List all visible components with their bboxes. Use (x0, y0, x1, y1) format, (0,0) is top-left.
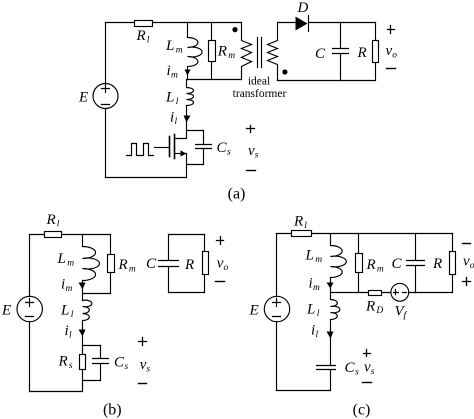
inductor Ll (a) (187, 80, 194, 131)
current arrow im (c) (327, 283, 334, 289)
svg-text:o: o (470, 261, 474, 271)
wire: (b) snubber top rail (83, 345, 101, 347)
svg-text:R: R (118, 257, 128, 273)
source E (a) (93, 84, 118, 109)
svg-text:D: D (375, 306, 383, 316)
resistor R (a) (373, 23, 379, 81)
label vo plus (c) (463, 278, 471, 286)
wire: (a) secondary to diode (278, 22, 296, 24)
wire: (b) E top lead (29, 235, 31, 297)
label vo minus (c) (463, 243, 471, 245)
svg-text:R: R (432, 256, 442, 272)
wire: (b) magnetizing node rail (83, 293, 111, 295)
label vs plus (a) (247, 126, 255, 133)
transformer secondary winding (a) (268, 23, 278, 81)
wire: (a) source lead (186, 154, 188, 178)
svg-text:m: m (377, 264, 384, 274)
capacitor C (b) (159, 235, 179, 293)
svg-text:l: l (57, 220, 60, 230)
resistor Rm (a) (209, 23, 216, 80)
label ideal transformer (233, 76, 287, 101)
svg-text:s: s (371, 367, 375, 377)
svg-text:o: o (392, 51, 397, 61)
inductor Lm (a) (188, 23, 203, 80)
svg-text:E: E (249, 303, 259, 319)
svg-text:C: C (114, 354, 125, 370)
label Vf (c) (395, 304, 408, 322)
svg-text:s: s (355, 368, 359, 378)
wire: (b) snubber bottom rail (83, 380, 101, 382)
resistor R (c) (450, 234, 456, 293)
svg-text:m: m (67, 259, 74, 269)
capacitor C (c) (407, 234, 425, 293)
capacitor Cs (c) (317, 366, 336, 391)
svg-text:l: l (69, 331, 72, 341)
polarity dot primary (a) (232, 27, 237, 32)
wire: (a) E bottom lead (105, 109, 107, 178)
wire: (a) drain node to Cs (187, 130, 204, 132)
resistor Rm (c) (356, 234, 363, 293)
resistor RD (c) (369, 291, 382, 296)
resistor Rl (c) (292, 231, 312, 237)
wire: (a) diode to output rail (309, 22, 376, 24)
label vo minus (b) (216, 281, 225, 283)
svg-text:L: L (165, 38, 174, 54)
source Vf (c) (391, 283, 409, 301)
svg-text:(c): (c) (353, 402, 371, 419)
label vo plus (b) (217, 237, 224, 245)
label il (c) (311, 323, 319, 341)
label Rl (c) (293, 214, 307, 232)
inductor Lm (b) (83, 235, 100, 294)
label vs (b) (140, 357, 151, 375)
label Rm (a) (217, 44, 235, 62)
svg-text:C: C (146, 256, 157, 272)
wire: (c) top rail (277, 233, 453, 235)
label vo minus (a) (387, 68, 396, 70)
svg-text:R: R (58, 354, 68, 370)
svg-text:L: L (165, 90, 174, 106)
svg-text:E: E (1, 303, 11, 319)
label vs plus (c) (364, 350, 371, 357)
svg-text:s: s (125, 362, 129, 372)
svg-text:(b): (b) (103, 402, 122, 419)
svg-text:m: m (66, 284, 73, 294)
label Cs (a) (217, 140, 232, 158)
resistor Rs (b) (80, 346, 86, 392)
svg-text:R: R (46, 212, 56, 228)
svg-text:C: C (392, 256, 403, 272)
current arrow im (a) (185, 70, 191, 76)
MOSFET switch (a) (155, 131, 187, 159)
svg-text:D: D (297, 0, 309, 16)
current arrow il (a) (184, 116, 191, 123)
svg-text:l: l (176, 97, 179, 107)
label Ll (a) (165, 90, 179, 108)
polarity dot secondary (a) (282, 69, 287, 74)
svg-text:m: m (176, 46, 183, 56)
resistor Rl (a) (135, 21, 153, 27)
svg-text:l: l (317, 309, 320, 319)
svg-text:s: s (227, 148, 231, 158)
inductor Lm (c) (331, 234, 347, 293)
svg-text:L: L (306, 301, 315, 317)
svg-text:R: R (184, 257, 194, 273)
wire: (a) top rail (106, 22, 242, 24)
svg-text:l: l (175, 117, 178, 127)
resistor Rl (b) (45, 232, 62, 238)
label Ll (c) (306, 301, 320, 319)
svg-text:(a): (a) (228, 186, 246, 203)
wire: (b) E bottom lead (29, 322, 31, 392)
svg-text:C: C (315, 46, 326, 62)
svg-text:m: m (315, 255, 322, 265)
transformer primary winding (a) (242, 23, 252, 80)
label vo (a) (386, 43, 398, 61)
svg-text:l: l (147, 36, 150, 46)
label vs minus (c) (363, 382, 372, 384)
label Rm (c) (366, 257, 384, 275)
wire: (a) output bottom rail (278, 80, 376, 82)
svg-text:ideal: ideal (248, 76, 270, 88)
wire: (a) E top lead (105, 23, 107, 84)
svg-text:s: s (255, 150, 259, 160)
wire: (c) bottom rail (277, 390, 331, 392)
capacitor Cs (b) (93, 346, 109, 381)
label Lm (c) (305, 248, 323, 266)
label Cs (b) (114, 354, 129, 372)
label vs (c) (364, 360, 375, 378)
wire: (a) magnetizing node rail (188, 79, 242, 81)
label il (b) (65, 323, 73, 341)
resistor R (b) (203, 235, 209, 293)
source E (b) (17, 296, 42, 321)
svg-text:o: o (224, 263, 229, 273)
inductor Ll (c) (331, 293, 340, 366)
label Rl (a) (136, 28, 150, 46)
svg-text:m: m (228, 51, 235, 61)
resistor Rm (b) (108, 235, 115, 294)
label im (b) (61, 277, 73, 295)
svg-text:m: m (171, 71, 178, 81)
svg-text:transformer: transformer (233, 88, 287, 100)
svg-text:C: C (345, 360, 356, 376)
svg-text:l: l (316, 330, 319, 340)
svg-text:E: E (78, 90, 88, 106)
svg-text:C: C (217, 140, 228, 156)
wire: (b) top rail (30, 234, 111, 236)
source E (c) (264, 296, 289, 321)
capacitor C (a) (333, 23, 349, 81)
label Lm (a) (165, 38, 183, 56)
svg-text:R: R (366, 257, 376, 273)
label Rs (b) (58, 354, 73, 372)
svg-text:R: R (365, 299, 375, 315)
transformer core (a) (258, 38, 262, 68)
label im (c) (309, 276, 321, 294)
svg-text:L: L (60, 302, 69, 318)
label vo (b) (217, 256, 229, 274)
svg-text:s: s (69, 361, 73, 371)
capacitor Cs (a) (187, 131, 212, 165)
wire: (b) output bottom rail (169, 292, 205, 294)
svg-text:L: L (305, 248, 314, 264)
wire: (c) node rail with RD Vf (331, 292, 453, 294)
label vs (a) (248, 143, 259, 161)
wire: (b) output top rail (169, 234, 205, 236)
svg-text:R: R (136, 28, 146, 44)
svg-text:L: L (57, 251, 66, 267)
inductor Ll (b) (83, 294, 92, 346)
svg-text:R: R (293, 214, 303, 230)
label Rl (b) (46, 212, 60, 230)
svg-text:R: R (217, 44, 227, 60)
label Cs (c) (345, 360, 360, 378)
svg-text:m: m (129, 264, 136, 274)
label Lm (b) (57, 251, 75, 269)
label vs plus (b) (139, 338, 147, 346)
label vo plus (a) (388, 26, 395, 34)
label RD (c) (365, 299, 383, 317)
wire: (b) bottom rail (30, 391, 83, 393)
svg-text:f: f (404, 310, 408, 321)
label vo (c) (463, 254, 474, 272)
svg-text:l: l (71, 310, 74, 320)
wire: (c) E bottom lead (276, 322, 278, 391)
gate drive square wave (a) (127, 144, 154, 156)
svg-text:m: m (313, 283, 320, 293)
label Ll (b) (60, 302, 74, 320)
label Rm (b) (118, 257, 136, 275)
label im (a) (167, 63, 179, 81)
current arrow il (b) (79, 330, 86, 337)
label vs minus (b) (139, 383, 147, 385)
svg-text:l: l (304, 221, 307, 231)
label vs minus (a) (247, 170, 256, 172)
svg-text:R: R (357, 45, 367, 61)
wire: (a) bottom rail (106, 177, 187, 179)
wire: (c) E top lead (276, 234, 278, 297)
current arrow il (c) (327, 332, 334, 339)
svg-text:s: s (146, 364, 150, 374)
current arrow im (b) (79, 283, 86, 290)
diode D (296, 16, 309, 32)
label il (a) (170, 110, 178, 128)
